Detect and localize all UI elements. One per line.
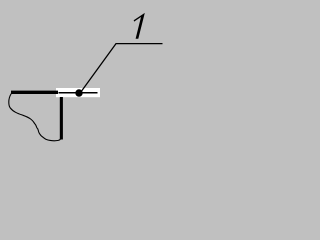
junction dot <box>75 89 82 96</box>
leader line (horizontal + diagonal to junction) <box>81 44 163 93</box>
background canvas <box>0 0 168 148</box>
wire <box>59 92 98 94</box>
thick horizontal bar <box>11 91 58 94</box>
thick vertical bar <box>60 97 63 140</box>
freehand curve <box>9 94 61 141</box>
wire highlight box <box>56 88 100 97</box>
label 1 (callout number, italic) <box>134 13 145 39</box>
